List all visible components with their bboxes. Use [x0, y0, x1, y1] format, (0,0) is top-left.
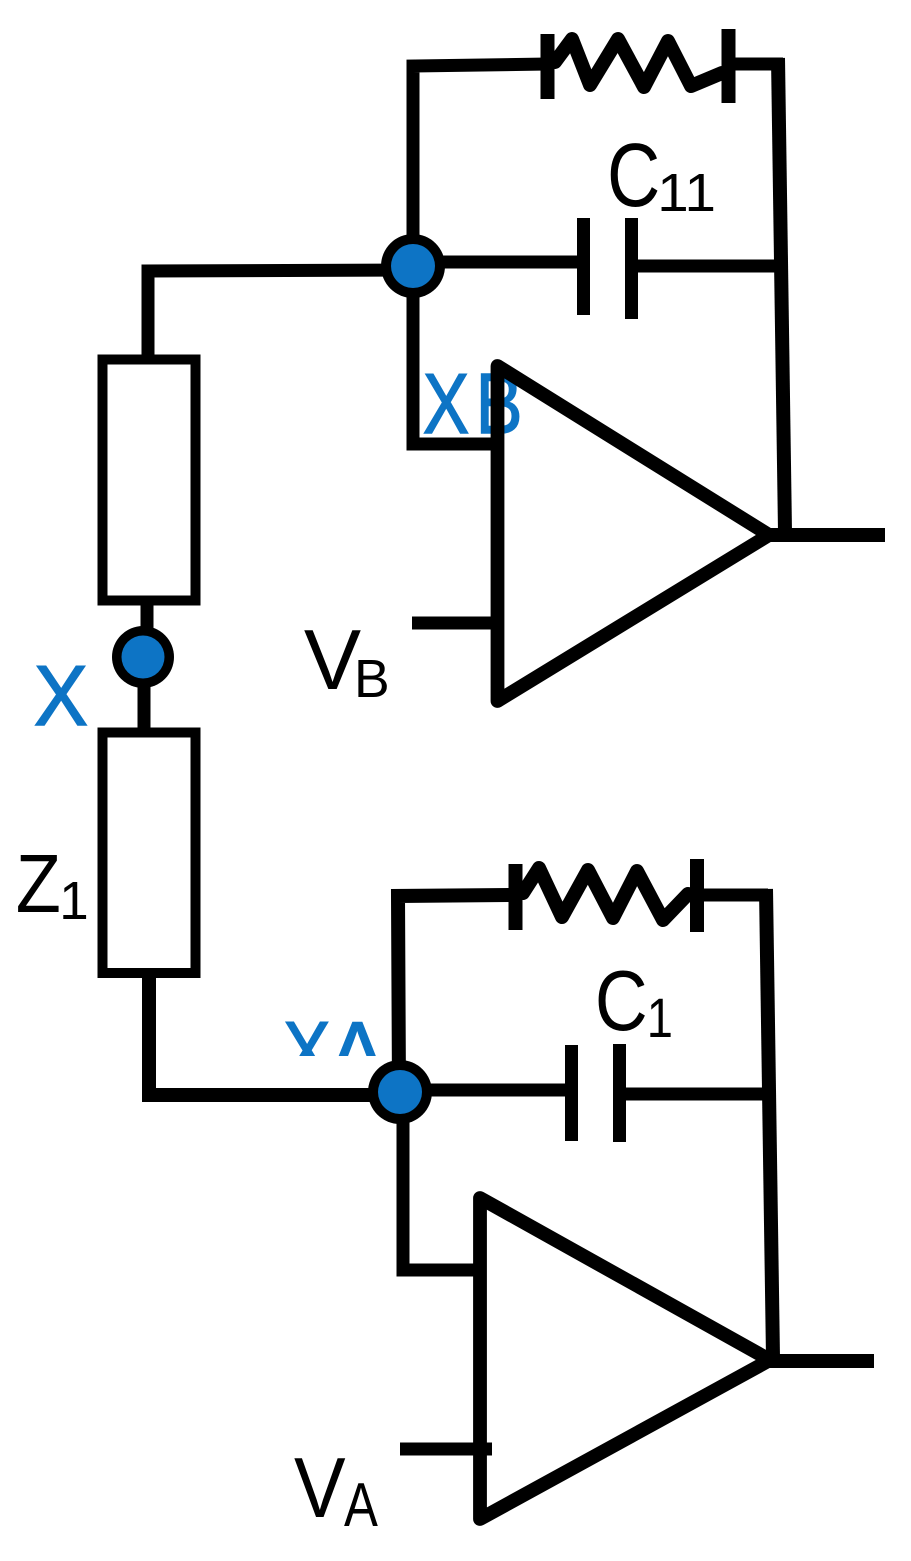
wire right vertical of feedback loop A: [766, 889, 773, 1358]
label VA: [294, 1441, 378, 1541]
capacitor C1 left plate: [565, 1045, 578, 1141]
wire node XB down to op-amp B non-inverting input: [413, 266, 504, 444]
svg-text:1: 1: [59, 872, 88, 932]
resistor RA zigzag: [523, 868, 688, 920]
label X (node X): [34, 648, 88, 743]
svg-text:X: X: [423, 357, 469, 451]
wire VA input to op-amp A: [400, 1443, 492, 1456]
svg-text:V: V: [294, 1441, 346, 1536]
wire node XA up to top-left corner of feedback loop A: [398, 895, 516, 1092]
svg-text:C: C: [595, 953, 648, 1048]
wire node X to box Z1: [138, 682, 151, 732]
svg-text:1: 1: [647, 986, 673, 1049]
wire right vertical of feedback loop B: [778, 58, 785, 532]
label VB: [304, 613, 390, 709]
label Z1: [16, 837, 89, 931]
svg-text:A: A: [344, 1471, 378, 1540]
resistor RB right terminal bar: [722, 29, 736, 103]
wire capacitor C1 to right vertical of loop A: [625, 1088, 770, 1101]
wire box Z1 down and right to node XA: [149, 975, 399, 1095]
resistor RA right terminal bar: [690, 859, 704, 932]
node XB junction dot: [381, 234, 445, 298]
svg-text:X: X: [34, 648, 88, 743]
wire node XB up to top-left corner of feedback loop B: [413, 64, 548, 272]
resistor RB zigzag: [555, 39, 722, 87]
wire node XA down to op-amp A non-inverting input: [403, 1092, 485, 1270]
op-amp U1 (B) triangle: [498, 366, 770, 701]
capacitor C1 right plate: [613, 1044, 626, 1142]
resistor RB left terminal bar: [541, 34, 555, 99]
wire node XB to capacitor C11 left plate: [413, 256, 578, 269]
wire capacitor C11 to right vertical of loop B: [637, 260, 783, 273]
impedance box Z upper (unlabeled): [103, 360, 196, 601]
wire node XA to capacitor C1 left plate: [400, 1084, 566, 1097]
label C1: [595, 953, 673, 1049]
wire node XB left to impedance chain: [148, 270, 413, 360]
node XA junction dot: [368, 1060, 432, 1124]
svg-text:11: 11: [657, 162, 716, 223]
wire op-amp A output: [767, 1354, 874, 1368]
label C11: [607, 126, 716, 226]
svg-text:C: C: [607, 126, 660, 226]
svg-text:Z: Z: [16, 837, 61, 930]
wire op-amp B output: [770, 528, 885, 542]
node X junction dot: [112, 626, 174, 688]
wire box Z upper to node X: [141, 600, 154, 632]
capacitor C11 left plate: [577, 218, 590, 315]
op-amp U2 (A) triangle: [480, 1198, 770, 1519]
svg-text:B: B: [354, 649, 390, 709]
impedance box Z1: [103, 733, 196, 974]
capacitor C11 right plate: [625, 218, 638, 319]
svg-text:V: V: [304, 613, 361, 708]
label XB: [423, 356, 522, 452]
resistor RA left terminal bar: [509, 864, 523, 930]
wire resistor RA to top-right corner of loop A: [703, 889, 768, 902]
wire VB input to op-amp B: [412, 617, 503, 630]
wire resistor RB to top-right corner: [733, 58, 783, 71]
